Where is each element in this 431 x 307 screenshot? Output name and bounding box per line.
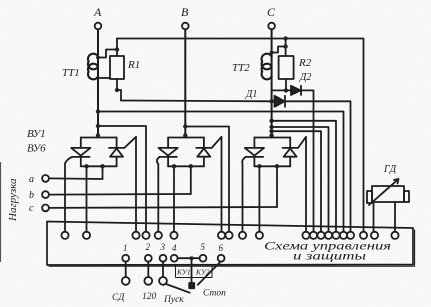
svg-text:b: b bbox=[29, 190, 34, 201]
svg-text:a: a bbox=[29, 174, 34, 185]
svg-text:А: А bbox=[93, 5, 102, 19]
svg-text:ТТ2: ТТ2 bbox=[232, 62, 250, 74]
svg-text:5: 5 bbox=[201, 242, 206, 252]
svg-text:С: С bbox=[267, 5, 276, 19]
svg-text:ВУ1: ВУ1 bbox=[27, 128, 46, 140]
svg-text:R1: R1 bbox=[127, 59, 140, 71]
svg-text:ГД: ГД bbox=[383, 164, 397, 175]
svg-text:Д1: Д1 bbox=[245, 89, 257, 100]
svg-text:ВУ6: ВУ6 bbox=[27, 143, 46, 155]
svg-text:120: 120 bbox=[142, 292, 157, 302]
svg-text:ТТ1: ТТ1 bbox=[62, 67, 80, 79]
svg-text:6: 6 bbox=[219, 243, 224, 253]
svg-text:КУ2: КУ2 bbox=[195, 268, 210, 277]
svg-text:Стоп: Стоп bbox=[203, 288, 226, 298]
svg-text:и защиты: и защиты bbox=[293, 251, 366, 263]
svg-text:Пуск: Пуск bbox=[163, 295, 184, 305]
svg-text:R2: R2 bbox=[298, 57, 312, 69]
svg-text:КУ1: КУ1 bbox=[176, 268, 191, 277]
svg-text:4: 4 bbox=[172, 243, 177, 253]
svg-text:2: 2 bbox=[146, 242, 151, 252]
svg-text:В: В bbox=[181, 5, 189, 19]
svg-text:c: c bbox=[29, 203, 34, 214]
svg-text:3: 3 bbox=[160, 242, 166, 252]
svg-text:Нагрузка: Нагрузка bbox=[7, 178, 19, 222]
svg-text:СД: СД bbox=[112, 293, 125, 303]
svg-text:1: 1 bbox=[123, 243, 128, 253]
svg-text:Д2: Д2 bbox=[299, 72, 311, 83]
